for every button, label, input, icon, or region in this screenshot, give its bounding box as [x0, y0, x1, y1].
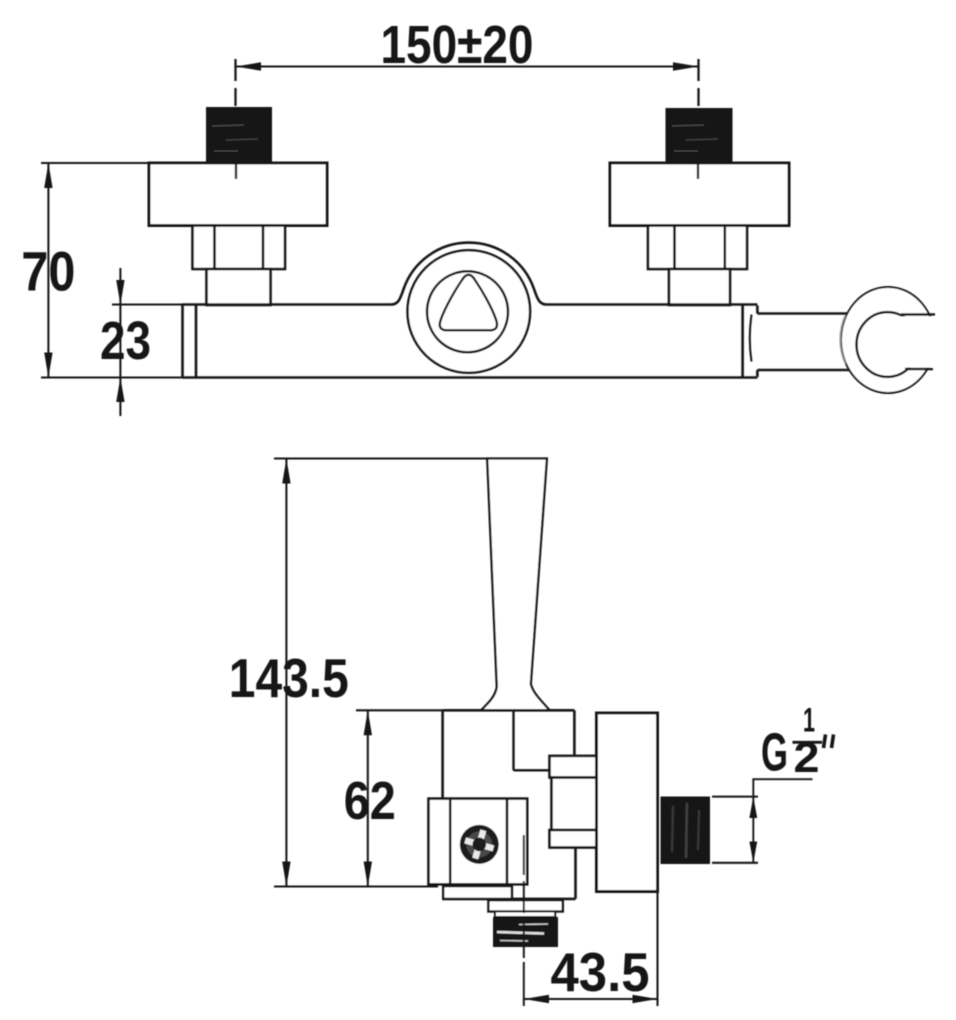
- dim 143.5 bottom extension line: [274, 885, 438, 887]
- dim 43.5 left extension (center line): [523, 962, 525, 1006]
- screw box: [429, 799, 528, 885]
- center line left eccentric (dash): [234, 59, 236, 106]
- dim 43.5 dimension line: [524, 998, 658, 1000]
- diverter inner circle: [427, 271, 508, 352]
- svg-text:43.5: 43.5: [551, 941, 650, 1003]
- dim 70 dimension line: [47, 163, 49, 378]
- shower handset holder (C shape): [840, 287, 940, 393]
- body left edge: [441, 710, 444, 798]
- dim 150±20 dimension line: [236, 65, 699, 67]
- left stem: [207, 269, 271, 305]
- hose connector step 1: [488, 900, 562, 911]
- diverter outer circle: [408, 250, 531, 373]
- inch marks: [824, 735, 834, 749]
- body bottom edge: [443, 898, 576, 901]
- svg-text:150±20: 150±20: [381, 15, 534, 75]
- shower pipe to holder: [757, 314, 860, 371]
- dim 143.5 dimension line: [285, 459, 287, 887]
- G 1/2 thread dimension line with leader: [753, 779, 812, 863]
- dim 62 top extension line: [356, 709, 443, 711]
- dim 43.5 right extension line: [656, 893, 658, 1006]
- right threaded tail (black block): [666, 108, 733, 162]
- svg-text:143.5: 143.5: [229, 647, 349, 709]
- dim 143.5 top extension line: [274, 457, 547, 459]
- inlet thread G1/2 (black block): [661, 797, 711, 865]
- dim 62 arrowheads: [364, 710, 372, 886]
- dim 70 extension lines: [41, 163, 183, 378]
- body top edge: [443, 709, 575, 712]
- dim 143.5 arrowheads: [282, 459, 290, 887]
- dim 23 arrowheads: [116, 280, 124, 402]
- svg-text:23: 23: [100, 311, 151, 371]
- pipe cylinder arc tick: [750, 315, 752, 362]
- G 1/2 label: [761, 702, 820, 783]
- svg-text:62: 62: [344, 771, 396, 831]
- right stem: [669, 269, 730, 305]
- svg-text:G: G: [761, 723, 788, 783]
- hose connector step 2: [495, 912, 555, 918]
- right wall flange: [610, 163, 789, 226]
- dim 23 dimension line (arrows outside): [119, 268, 121, 416]
- nut top step: [550, 756, 597, 778]
- right hex nut: [648, 226, 747, 270]
- body internal cartridge lines: [514, 710, 551, 770]
- hose thread (black block): [493, 917, 558, 947]
- body right end cap: [743, 305, 758, 378]
- G 1/2 thread arrowheads: [749, 797, 757, 863]
- mixer body bar top edge with bump over diverter: [183, 243, 758, 305]
- dim 62 dimension line: [367, 710, 369, 886]
- body left end cap: [183, 305, 197, 378]
- body right edge lower: [574, 848, 577, 899]
- step under screw box: [443, 886, 512, 899]
- svg-text:70: 70: [21, 240, 75, 303]
- nut middle: [552, 778, 597, 831]
- dim 70 arrowheads: [44, 163, 52, 378]
- nut bottom step: [550, 830, 597, 848]
- diverter triangle: [440, 275, 497, 331]
- dim 23 extension line: [112, 303, 196, 305]
- lever handle: [481, 459, 550, 711]
- hose center line (dash-dot): [523, 835, 525, 958]
- center line right eccentric (dash): [697, 59, 699, 106]
- left hex nut: [193, 226, 286, 270]
- dim 43.5 arrowheads: [524, 995, 658, 1003]
- wall flange (side view): [597, 713, 658, 892]
- left wall flange: [149, 163, 327, 226]
- screw (diverter knob): [460, 825, 499, 864]
- G 1/2 thread dim extension lines: [712, 797, 758, 863]
- dim 150±20 arrowheads: [236, 62, 699, 70]
- mixer body bar bottom edge: [183, 376, 758, 379]
- left threaded tail (black block): [206, 107, 272, 163]
- body right edge upper: [573, 710, 576, 756]
